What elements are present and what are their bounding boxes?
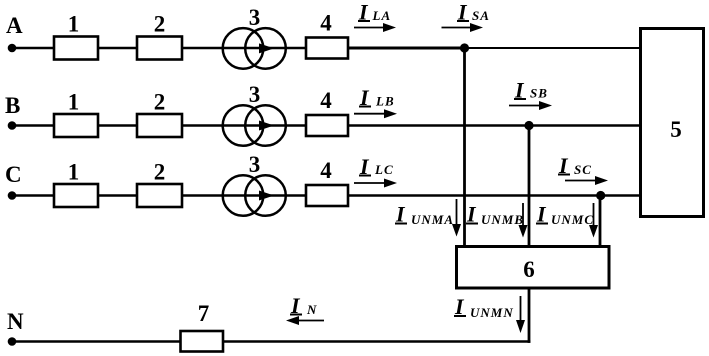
svg-text:N: N [306,302,317,317]
node C terminal dot [8,191,17,200]
label 2 (phase A) [154,12,166,37]
current label I_LA [358,0,391,25]
svg-text:1: 1 [68,160,80,185]
wire phase A: block 1 to block 2 [98,47,137,49]
svg-text:UNMC: UNMC [551,212,594,227]
wire neutral: block 7 to UNMN corner [224,340,531,342]
svg-text:3: 3 [249,152,261,177]
current label I_SC [558,153,592,178]
arrow I_N [286,316,324,325]
current label I_UNMN [454,294,514,320]
arrow I_SB [509,101,552,110]
label 3 (phase B) [249,82,261,107]
arrow I_UNMN [516,296,525,333]
svg-text:SB: SB [530,86,548,101]
svg-text:C: C [5,162,22,187]
svg-text:2: 2 [154,90,166,115]
label 6 [523,257,535,282]
wire phase C: block 4 to block 5 [348,194,640,196]
label 4 (phase C) [320,158,332,183]
wire phase A: terminal to block 1 [12,47,55,49]
wire phase C: block 1 to block 2 [98,194,137,196]
block 1 (phase C) [54,184,98,207]
svg-text:UNMA: UNMA [411,212,454,227]
svg-text:7: 7 [198,301,210,326]
arrow I_SC [565,176,608,185]
arrow I_LA [354,23,396,32]
block 4 (phase C) [306,185,348,206]
svg-text:3: 3 [249,5,261,30]
wire phase B: block 1 to block 2 [98,124,137,126]
svg-text:6: 6 [523,257,535,282]
arrow I_UNMB [519,203,528,238]
current label I_UNMC [536,202,594,228]
current transformer 3 (phase B) [223,105,286,146]
svg-text:LA: LA [372,8,392,23]
block 4 (phase A) [306,38,348,59]
wire B-down: junction B to block 6 [528,126,531,247]
block 2 (phase B) [137,114,182,137]
svg-text:2: 2 [154,12,166,37]
block 5 [641,29,704,217]
label 1 (phase A) [68,12,80,37]
svg-text:4: 4 [320,88,332,113]
svg-text:SC: SC [574,162,592,177]
wire neutral: terminal to block 7 [12,340,180,342]
svg-text:UNMN: UNMN [470,305,514,320]
current label I_UNMB [466,202,524,228]
node A terminal label [6,13,23,38]
node C terminal label [5,162,22,187]
label 5 [670,117,682,142]
svg-text:4: 4 [320,11,332,36]
wire phase B: block 2 through CT to block 4 [182,124,306,126]
label 1 (phase B) [68,90,80,115]
arrow I_UNMA [452,199,461,237]
svg-text:5: 5 [670,117,682,142]
svg-text:4: 4 [320,158,332,183]
current label I_SA [457,0,490,25]
junction node C-down [596,191,605,200]
block 2 (phase A) [137,37,182,60]
current label I_UNMA [395,202,454,228]
block 1 (phase B) [54,114,98,137]
junction node A-down [460,43,469,52]
block 4 (phase B) [306,115,348,136]
svg-text:B: B [5,93,20,118]
svg-text:UNMB: UNMB [481,212,524,227]
block 2 (phase C) [137,184,182,207]
current label I_LB [359,85,395,110]
svg-text:SA: SA [472,8,490,23]
wire phase C: terminal to block 1 [12,194,55,196]
label 4 (phase B) [320,88,332,113]
current transformer 3 (phase A) [223,28,286,69]
current transformer 3 (phase C) [223,175,286,216]
label 3 (phase A) [249,5,261,30]
node N terminal dot [8,337,17,346]
junction node B-down [524,121,533,130]
label 7 [198,301,210,326]
label 1 (phase C) [68,160,80,185]
label 3 (phase C) [249,152,261,177]
current label I_LC [359,154,394,179]
wire phase A: junction to block 5 [465,47,640,49]
wire phase B: block 4 to block 5 [348,124,640,126]
svg-text:1: 1 [68,12,80,37]
node N terminal label [7,309,24,334]
arrow I_LC [354,179,397,188]
wire A-down: junction A to block 6 [463,48,466,246]
svg-text:A: A [6,13,23,38]
svg-text:LB: LB [375,94,395,109]
svg-text:1: 1 [68,90,80,115]
wire phase B: terminal to block 1 [12,124,55,126]
node B terminal label [5,93,20,118]
arrow I_UNMC [589,203,598,238]
svg-text:N: N [7,309,24,334]
wire phase A: block 2 through CT to block 4 [182,47,306,49]
label 4 (phase A) [320,11,332,36]
block 7 [181,331,224,352]
wire phase A: block 4 to junction [348,47,465,50]
node A terminal dot [8,44,17,53]
wire C-down: junction C to block 6 [599,196,602,247]
block 6 [457,247,610,289]
svg-text:3: 3 [249,82,261,107]
wire UNMN: block 6 to neutral line [528,289,531,343]
wire phase C: block 2 through CT to block 4 [182,194,306,196]
current label I_N [290,293,317,318]
label 2 (phase C) [154,160,166,185]
label 2 (phase B) [154,90,166,115]
node B terminal dot [8,121,17,130]
arrow I_SA [442,23,484,32]
arrow I_LB [354,109,397,118]
svg-text:2: 2 [154,160,166,185]
svg-text:LC: LC [374,162,394,177]
current label I_SB [514,78,548,103]
block 1 (phase A) [54,37,98,60]
